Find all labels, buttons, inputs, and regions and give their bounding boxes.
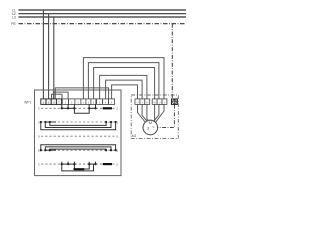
position row 1 lower dashed line (41, 149, 115, 151)
svg-text:M1: M1 (132, 134, 137, 138)
svg-text:L3: L3 (12, 15, 16, 19)
PE terminal square (172, 99, 178, 104)
PE wire to motor frame dash-dot (158, 105, 175, 128)
terminal strip group 2 (62, 99, 81, 105)
wire drop PE dash-dot (171, 24, 173, 99)
jumper wire 2 group1 to cell 68 (53, 92, 68, 99)
svg-text:U: U (137, 101, 139, 104)
motor M1 dashed enclosure (131, 95, 178, 139)
wire bus L2 (19, 13, 187, 15)
motor lead wire 4 (154, 104, 156, 121)
PE terminal earth circle (173, 100, 177, 104)
svg-text:3: 3 (147, 126, 149, 130)
jumper wire 3 group1 to cell 62 (52, 94, 63, 99)
row 2 bottom thick bar (103, 163, 112, 165)
motor terminal strip group B (152, 99, 167, 105)
row 1 upper rail middle (45, 122, 111, 128)
wire loop 5 switch to motor (106, 80, 143, 99)
switch WP1 enclosure box (35, 90, 122, 176)
row 2 bottom stems (62, 162, 96, 165)
motor lead wire 1 (138, 104, 146, 122)
wire loop 1 switch to motor (83, 58, 164, 99)
row 1 lower junction dots (40, 149, 117, 151)
row 2 bottom outer U-link below (62, 164, 94, 171)
row 2 top terminal stems (62, 105, 96, 109)
row 1 upper rail inner (50, 122, 106, 125)
row 2 top junction dots (61, 107, 97, 109)
wire drop L2 to terminal (48, 14, 50, 99)
row 1 upper junction dots (40, 121, 117, 123)
motor lead wire 2 (142, 104, 147, 121)
wire drop L1 to terminal (42, 10, 44, 99)
row 1 upper solid segment (45, 121, 56, 123)
motor terminal strip group A (135, 99, 150, 105)
wire loop 6 switch to motor (112, 85, 138, 99)
motor M1 circle (143, 120, 158, 135)
wire loop 3 switch to motor (94, 68, 155, 99)
svg-text:PE: PE (11, 22, 16, 26)
row 2 top U-link below (74, 108, 89, 113)
row 2 top contact link solid right (89, 107, 95, 109)
position row 2 top dashed line (41, 107, 115, 109)
position row 2 bottom dashed line (41, 163, 115, 165)
terminal strip group 3 (81, 99, 96, 105)
row 2 bottom contact link solid left (62, 163, 75, 165)
row 2 top thick bar (103, 107, 112, 109)
row 2 bottom junction dots (61, 163, 97, 165)
svg-text:WP1: WP1 (24, 101, 31, 105)
wire bus L3 (19, 16, 187, 18)
motor lead wire 6 (156, 104, 164, 122)
row 1 lower rail outer (41, 145, 116, 151)
terminal strip group 1 L1 L2 L3 (41, 99, 62, 105)
row 2 top contact link solid left (62, 107, 75, 109)
terminal strip group 4 (97, 99, 115, 105)
row 2 bottom thick bar on U (74, 168, 85, 170)
wire bus PE dash-dot (19, 23, 186, 25)
row 2 bottom contact link solid right (89, 163, 95, 165)
wire loop 4 switch to motor (100, 75, 147, 99)
svg-text:U: U (159, 101, 161, 104)
motor lead wire 3 (147, 104, 148, 120)
jumper wire 1 group1 to cell 108 (55, 88, 108, 99)
row 1 lower rail inner (50, 149, 106, 150)
row 1 lower solid segment (45, 149, 56, 151)
row 1 upper rail outer (41, 122, 116, 130)
row 2 bottom inner U-link below (74, 164, 89, 169)
position row 1 upper dashed line (41, 121, 115, 123)
wire drop L3 to terminal (53, 17, 55, 99)
row 1 lower rail middle (45, 147, 111, 150)
svg-text:~: ~ (152, 125, 155, 131)
PE terminal earth mark (173, 100, 177, 104)
motor lead wire 5 (154, 104, 159, 121)
position row 0 dashed line (41, 135, 115, 137)
wire loop 2 switch to motor (88, 63, 158, 99)
wire bus L1 (19, 9, 187, 11)
